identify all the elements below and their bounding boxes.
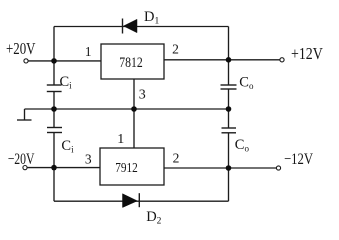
node: -12V output junction xyxy=(226,165,232,171)
svg-text:+20V: +20V xyxy=(6,39,36,58)
wire: lower Co bottom lead xyxy=(228,133,230,168)
svg-text:Ci: Ci xyxy=(60,74,73,91)
svg-text:D1: D1 xyxy=(144,9,159,27)
svg-text:1: 1 xyxy=(117,132,124,147)
capacitor Co (upper output filter) xyxy=(221,85,237,89)
svg-text:Co: Co xyxy=(235,137,250,154)
svg-text:Ci: Ci xyxy=(61,138,74,155)
svg-text:2: 2 xyxy=(173,151,180,166)
node: ground rail / regulator common junction xyxy=(131,106,137,112)
svg-text:D2: D2 xyxy=(146,209,161,226)
wire: left riser from -20V node down to bottom rail xyxy=(53,168,55,202)
wire: top rail from input node to +12V output node xyxy=(54,26,229,28)
svg-text:+12V: +12V xyxy=(291,44,323,63)
svg-text:2: 2 xyxy=(172,41,179,56)
svg-text:3: 3 xyxy=(139,88,146,103)
ground xyxy=(17,109,32,120)
wire: lower Ci top lead xyxy=(53,109,55,128)
node: ground rail / Co junction xyxy=(226,106,232,112)
wire: right riser from bottom rail up to -12V output line xyxy=(228,168,230,201)
wire: lower Co top lead xyxy=(228,109,230,128)
svg-text:−12V: −12V xyxy=(284,151,313,168)
node: -20V input junction xyxy=(51,165,57,171)
wire: upper Ci top lead xyxy=(53,61,55,85)
wire: right riser from top rail down to +12V output line xyxy=(228,27,230,60)
wire: +20V input line to 7812 pin 1 xyxy=(28,60,101,62)
node: ground rail / Ci junction xyxy=(51,106,57,112)
diode D2 (on bottom rail, cathode right) xyxy=(123,193,140,207)
svg-text:3: 3 xyxy=(85,152,92,167)
wire: middle ground rail xyxy=(25,108,229,110)
wire: -20V input line to 7912 pin 3 xyxy=(27,167,100,169)
wire: 7812 pin 2 to +12V output terminal xyxy=(164,59,280,61)
svg-text:7912: 7912 xyxy=(115,161,138,176)
wire: left riser from top rail down to +20V input node xyxy=(53,27,55,61)
capacitor Ci (upper input filter) xyxy=(47,85,62,92)
svg-text:−20V: −20V xyxy=(8,151,35,168)
regulator U1 7812 box xyxy=(101,44,164,79)
terminal: -20V input xyxy=(23,166,27,170)
regulator U2 7912 box xyxy=(100,148,164,185)
terminal: +12V output xyxy=(280,58,284,62)
diode D1 (on top rail, cathode left) xyxy=(123,19,138,34)
wire: 7912 pin 2 to -12V output terminal xyxy=(164,167,276,169)
svg-text:7812: 7812 xyxy=(119,55,143,71)
node: +12V output junction xyxy=(226,57,232,63)
wire: upper Ci bottom lead xyxy=(53,92,55,110)
svg-text:Co: Co xyxy=(239,74,254,91)
wire: 7812 pin 3 lead down to ground rail xyxy=(133,79,135,109)
wire: upper Co bottom lead xyxy=(228,89,230,109)
capacitor Co (lower output filter) xyxy=(222,128,237,133)
node: +20V input junction xyxy=(51,58,57,64)
svg-text:1: 1 xyxy=(85,44,92,59)
wire: 7912 pin 1 lead from ground rail down to box xyxy=(133,109,135,148)
terminal: -12V output xyxy=(276,166,280,170)
wire: bottom rail through D2 xyxy=(54,200,229,202)
terminal: +20V input xyxy=(24,59,28,63)
wire: lower Ci bottom lead xyxy=(53,133,55,168)
wire: upper Co top lead xyxy=(228,60,230,85)
capacitor Ci (lower input filter) xyxy=(47,128,62,133)
